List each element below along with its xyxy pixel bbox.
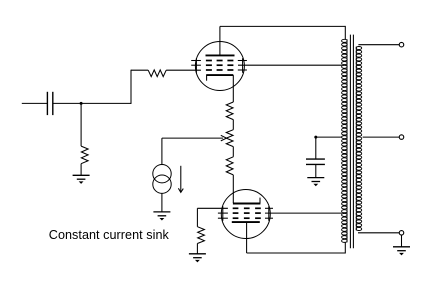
- resistor R3 (V1 cathode): [226, 102, 233, 120]
- wire secondary bottom output: [358, 232, 399, 234]
- tube V1 cathode lead down: [232, 75, 234, 102]
- wire C2 to ground: [315, 164, 317, 177]
- tube V2 right grid stub row1: [265, 207, 273, 209]
- wire CS1 to ground: [161, 193, 163, 212]
- wire R2 to V1 grid: [166, 69, 201, 71]
- ground below secondary: [393, 247, 410, 256]
- wire secondary mid output: [363, 136, 400, 138]
- transformer T1 secondary winding: [356, 47, 362, 231]
- wire R4 to R5: [232, 147, 234, 157]
- ground below R6: [189, 254, 206, 263]
- tube V1 anode lead up: [219, 26, 221, 55]
- wire V2 grid down: [196, 208, 198, 226]
- tube V2 left grid side rod: [222, 206, 224, 221]
- node A junction dot: [80, 102, 83, 105]
- terminal output bottom: [399, 231, 404, 236]
- wire R1 to ground: [80, 164, 82, 176]
- potentiometer R4 element: [226, 130, 233, 147]
- wire R5 to V2 cathode: [232, 175, 234, 203]
- potentiometer R4 wiper arrow: [162, 135, 227, 141]
- tube V2 left grid stub row2: [218, 212, 228, 214]
- tube V2 grid g3 dashed row: [233, 217, 261, 219]
- tube V2 anode lead down: [246, 222, 248, 253]
- tube V2 cathode right tick: [259, 198, 261, 204]
- ground below CS1: [153, 212, 170, 221]
- wire down to primary top: [344, 26, 346, 40]
- tube V1 right grid side rod: [242, 58, 244, 73]
- current source CS1 upper circle: [153, 165, 171, 183]
- tube V2 envelope: [221, 190, 270, 239]
- capacitor C2 (bypass): [306, 159, 325, 164]
- terminal output mid: [399, 135, 404, 140]
- tube V1 left grid stub row1: [191, 60, 201, 62]
- tube V1 left grid side rod: [195, 58, 197, 73]
- wire wiper to current sink: [161, 138, 163, 165]
- terminal output top: [399, 42, 404, 47]
- tube V1 anode plate bar: [206, 54, 235, 56]
- node B+ junction dot: [314, 136, 317, 139]
- wire B+ down to C2: [315, 137, 317, 159]
- tube V2 anode plate bar: [232, 221, 260, 223]
- wire R3 to R4: [232, 120, 234, 130]
- tube V2 grid g2 dashed row: [233, 212, 261, 214]
- tube V2 left grid stub row3: [218, 217, 228, 219]
- tube V1 right grid stub row1: [238, 60, 247, 62]
- tube V2 right grid stub row3: [265, 217, 273, 219]
- current direction arrow: [178, 166, 183, 193]
- resistor R6 (V2 grid leak): [197, 227, 204, 244]
- resistor R5 (V2 cathode): [226, 157, 233, 175]
- wire B+ tap to transformer: [316, 136, 342, 138]
- wire R6 to ground: [196, 244, 198, 254]
- wire V2 screen to transformer tap: [265, 212, 342, 214]
- tube V1 grid g3 dashed row: [206, 60, 234, 62]
- transformer T1 core line left: [349, 35, 351, 249]
- tube V2 grid wire left: [197, 207, 228, 209]
- tube V1 right grid stub row3: [238, 69, 247, 71]
- tube V1 envelope: [195, 42, 244, 91]
- ground below C2: [307, 178, 324, 187]
- tube V1 cathode left tick: [206, 75, 208, 81]
- tube V1 grid g1 dashed row: [206, 69, 234, 71]
- wire V1 anode to transformer top: [220, 25, 345, 27]
- svg-text:Constant current sink: Constant current sink: [49, 228, 170, 242]
- transformer T1 primary winding: [342, 39, 348, 242]
- wire node A down to R1: [80, 103, 82, 146]
- tube V2 grid g1 dashed row: [233, 207, 261, 209]
- wire V1 screen to transformer tap: [238, 64, 342, 66]
- tube V1 grid g2 dashed row: [206, 64, 234, 66]
- wire riser: [130, 70, 132, 104]
- resistor R2 (grid stopper): [148, 70, 166, 77]
- wire V2 anode to transformer bottom: [247, 252, 346, 254]
- wire to R2: [131, 69, 148, 71]
- tube V1 cathode bar: [206, 74, 233, 76]
- tube V2 right grid side rod: [268, 206, 270, 221]
- tube V1 left grid stub row2: [191, 64, 201, 66]
- current source CS1 lower circle: [153, 175, 171, 193]
- wire secondary top output: [358, 44, 399, 46]
- capacitor C1 (input coupling): [47, 92, 52, 115]
- transformer T1 core line right: [352, 35, 354, 249]
- wire C1 to node A: [53, 102, 81, 104]
- resistor R1 (grid leak to ground): [81, 146, 88, 164]
- ground below R1: [73, 175, 90, 184]
- wire up to primary bottom: [344, 242, 346, 253]
- wire node A right: [81, 102, 131, 104]
- wire input lead: [22, 102, 47, 104]
- wire terminal to ground: [401, 235, 403, 247]
- tube V2 cathode bar: [233, 203, 261, 205]
